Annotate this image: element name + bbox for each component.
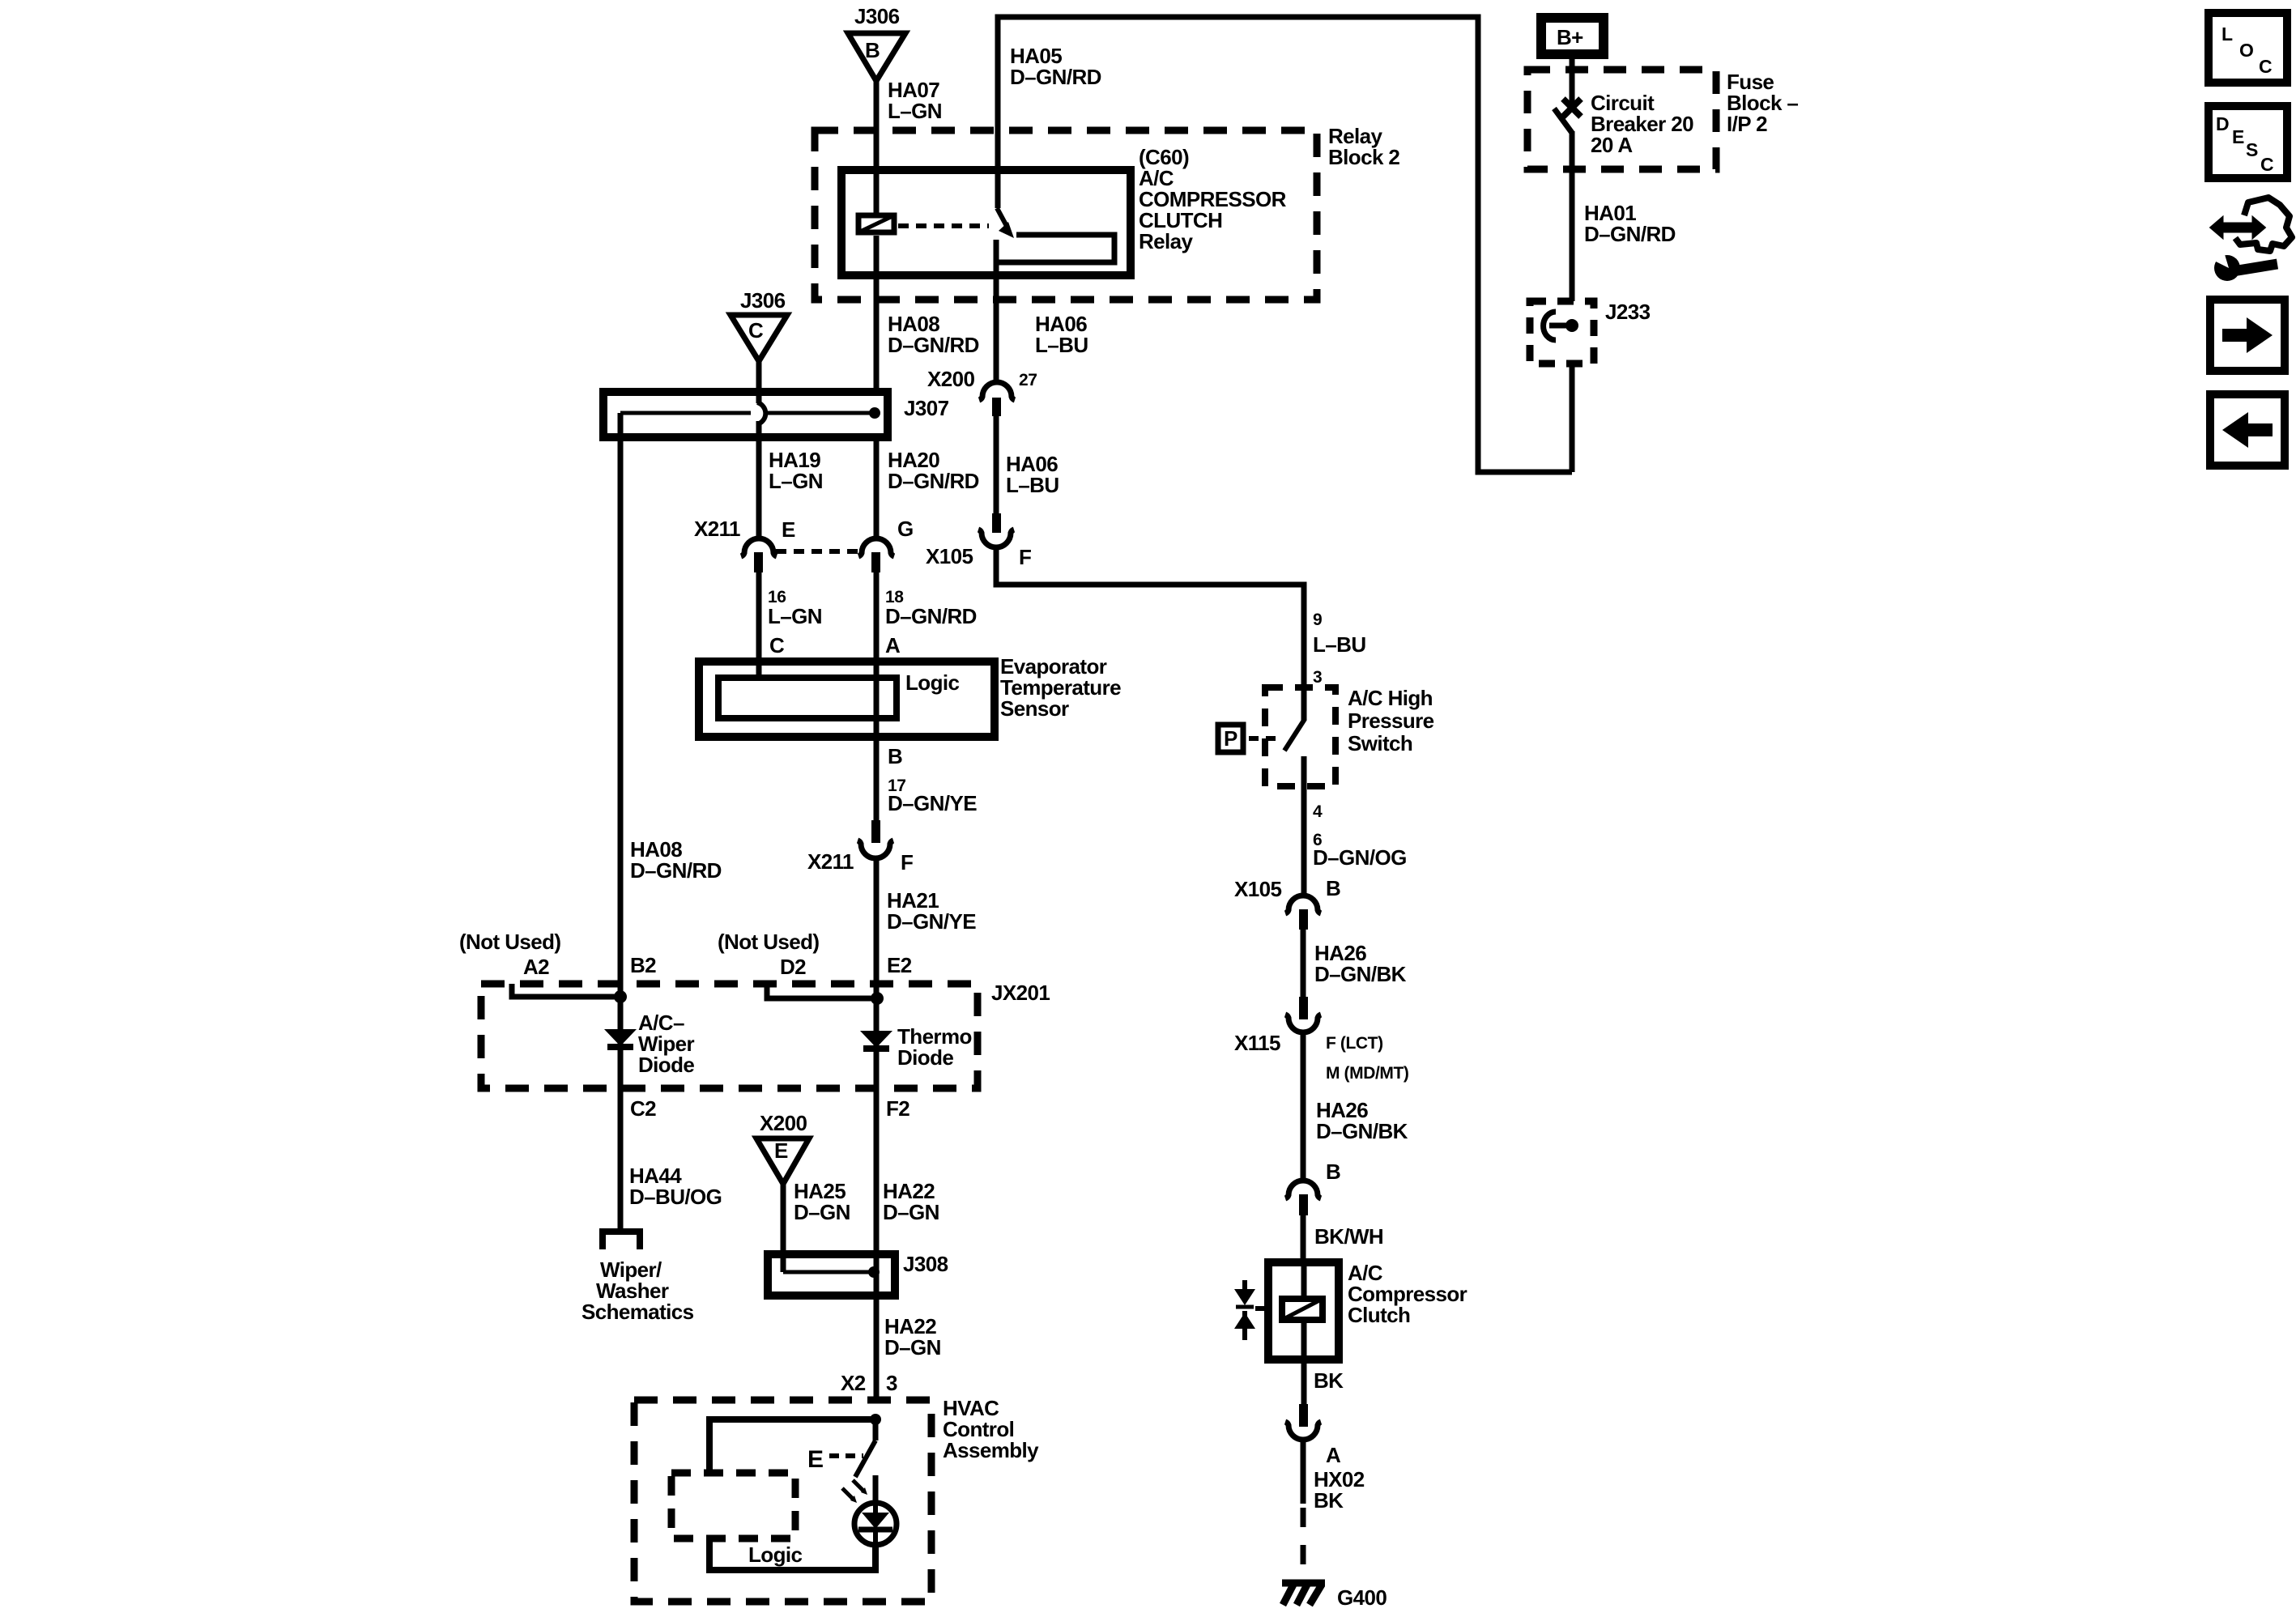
svg-text:X200: X200	[760, 1111, 807, 1135]
wire HA08 left branch down from J307	[618, 413, 624, 997]
A/C high pressure switch dashed box	[1265, 687, 1335, 786]
svg-text:O: O	[2239, 40, 2254, 61]
svg-text:F2: F2	[886, 1096, 909, 1121]
wire HA22 F2 to J308	[874, 1088, 880, 1400]
svg-text:A: A	[885, 633, 901, 657]
circuit breaker CB20	[1554, 91, 1693, 169]
svg-text:D–GN/RD: D–GN/RD	[888, 469, 979, 493]
node B+	[1541, 18, 1604, 54]
svg-text:4: 4	[1313, 802, 1323, 821]
wire sensor B out	[874, 678, 880, 820]
svg-text:BK: BK	[1314, 1488, 1344, 1513]
svg-text:C: C	[2260, 154, 2274, 175]
svg-text:D–GN/RD: D–GN/RD	[1010, 65, 1101, 89]
svg-text:G: G	[897, 517, 914, 541]
splice J233	[1530, 300, 1651, 364]
ground G400	[1282, 1583, 1387, 1610]
svg-text:D–BU/OG: D–BU/OG	[629, 1185, 722, 1209]
node B2 junction	[614, 990, 627, 1003]
wire HA25 E triangle to J308	[781, 1184, 786, 1272]
dashed wire to ground	[1301, 1508, 1306, 1580]
wire HA20 J307 to X211 G	[874, 437, 880, 538]
svg-text:Logic: Logic	[905, 670, 959, 695]
svg-text:(Not Used): (Not Used)	[718, 930, 819, 954]
svg-text:D2: D2	[780, 955, 806, 979]
svg-text:X211: X211	[807, 849, 854, 874]
svg-text:D–GN: D–GN	[794, 1200, 850, 1224]
node E2 junction	[871, 992, 884, 1005]
svg-text:JX201: JX201	[991, 981, 1050, 1005]
relay coil	[858, 170, 894, 275]
icon LOC box	[2209, 13, 2287, 83]
wire J233 down to corner	[1570, 364, 1575, 472]
svg-text:Pressure: Pressure	[1348, 709, 1434, 733]
pressure switch blade	[1284, 687, 1305, 786]
icon wrench/connector	[2209, 198, 2292, 281]
svg-text:X200: X200	[927, 367, 974, 391]
svg-text:A2: A2	[523, 955, 549, 979]
relay block 2 dashed box	[815, 130, 1317, 300]
suppressor diode compressor	[1234, 1280, 1255, 1340]
svg-text:F: F	[901, 850, 913, 874]
relay coil-switch dashed link	[898, 223, 989, 228]
svg-text:D–GN: D–GN	[884, 1335, 941, 1360]
svg-text:X105: X105	[1234, 877, 1281, 901]
svg-text:Switch: Switch	[1348, 731, 1412, 755]
fuse block dashed box	[1527, 70, 1716, 169]
JX201 dashed box	[481, 984, 978, 1088]
svg-text:S: S	[2246, 139, 2258, 160]
svg-text:C: C	[769, 633, 785, 657]
evaporator temperature sensor box	[699, 654, 1121, 737]
svg-text:3: 3	[886, 1371, 897, 1395]
wire HA06 relay to X200	[994, 275, 999, 383]
svg-text:20 A: 20 A	[1591, 133, 1633, 157]
svg-text:D–GN/YE: D–GN/YE	[888, 791, 977, 815]
svg-text:D–GN/BK: D–GN/BK	[1316, 1119, 1408, 1143]
A2 stub	[512, 984, 620, 997]
icon arrow right box	[2210, 300, 2285, 371]
svg-text:Diode: Diode	[897, 1045, 953, 1070]
wire BK below compressor	[1301, 1360, 1307, 1404]
wire J306 C to J307	[756, 361, 762, 403]
svg-text:X105: X105	[926, 544, 973, 568]
svg-text:M (MD/MT): M (MD/MT)	[1326, 1064, 1409, 1083]
HVAC internal wiring	[709, 1414, 881, 1503]
svg-text:9: 9	[1313, 611, 1322, 629]
svg-text:X211: X211	[694, 517, 740, 541]
svg-text:F: F	[1019, 545, 1031, 569]
svg-text:Sensor: Sensor	[1000, 696, 1069, 721]
wire B+ to fuse block	[1570, 54, 1575, 104]
off-page bracket wiper/washer	[603, 1232, 640, 1249]
svg-text:C: C	[748, 318, 764, 343]
svg-text:I/P 2: I/P 2	[1727, 112, 1767, 136]
splice J308	[768, 1252, 948, 1296]
D2 stub	[767, 984, 877, 998]
connector X105 pin F	[926, 513, 1031, 569]
svg-text:Block 2: Block 2	[1328, 145, 1399, 169]
connector X211 pin E	[694, 517, 795, 572]
svg-text:27: 27	[1019, 371, 1037, 389]
svg-text:C: C	[2259, 56, 2273, 77]
svg-text:B: B	[1326, 1160, 1340, 1184]
svg-text:Relay: Relay	[1139, 229, 1194, 253]
wire HA19 J307 to X211 E	[756, 421, 762, 538]
splice J307	[603, 392, 949, 437]
svg-text:L–GN: L–GN	[769, 469, 823, 493]
wire 16 L-GN to sensor C	[756, 572, 762, 662]
wire BK/WH	[1301, 1215, 1306, 1262]
relay text C60	[1139, 145, 1287, 253]
connector X115	[1234, 997, 1409, 1083]
svg-text:J308: J308	[903, 1252, 948, 1276]
svg-text:D–GN/BK: D–GN/BK	[1314, 962, 1407, 986]
svg-text:J306: J306	[854, 4, 900, 28]
svg-text:Assembly: Assembly	[943, 1438, 1039, 1462]
svg-text:BK/WH: BK/WH	[1314, 1224, 1383, 1249]
wire HA07 from J306 B to relay	[874, 81, 880, 170]
svg-text:A: A	[1326, 1443, 1341, 1467]
connector pin B compressor	[1285, 1160, 1340, 1215]
svg-text:F (LCT): F (LCT)	[1326, 1034, 1383, 1053]
svg-text:E: E	[782, 517, 795, 542]
wire HX02 BK	[1301, 1441, 1306, 1504]
svg-text:B: B	[1326, 876, 1340, 900]
svg-text:A/C High: A/C High	[1348, 686, 1433, 710]
wire HA06 to X105 F	[994, 416, 999, 515]
relay C60 box	[841, 170, 1131, 275]
svg-text:D–GN/RD: D–GN/RD	[888, 333, 979, 357]
svg-text:D: D	[2216, 113, 2230, 134]
svg-text:3: 3	[1313, 668, 1322, 687]
svg-text:L–BU: L–BU	[1313, 632, 1366, 657]
node P box	[1218, 725, 1281, 752]
svg-text:L–GN: L–GN	[768, 604, 822, 628]
wire HA21 to JX201 E2	[874, 857, 880, 998]
svg-text:L: L	[2221, 23, 2233, 45]
svg-text:D–GN/RD: D–GN/RD	[885, 604, 977, 628]
connector J306 C triangle	[731, 288, 787, 361]
wire top feed from B+ loop to relay HA05	[998, 17, 1572, 472]
connector X211 pin G	[858, 517, 914, 572]
svg-text:J307: J307	[904, 396, 949, 420]
svg-text:Schematics: Schematics	[581, 1300, 694, 1324]
svg-text:B: B	[865, 38, 880, 62]
svg-text:E: E	[774, 1138, 788, 1163]
svg-text:G400: G400	[1337, 1585, 1387, 1610]
icon arrow left box	[2210, 394, 2285, 466]
wire HA26 to X115	[1301, 930, 1306, 997]
connector X200 E triangle	[756, 1111, 809, 1184]
wire HA08 relay to J307	[874, 275, 880, 392]
svg-text:J233: J233	[1605, 300, 1651, 324]
connector J306 B triangle	[848, 4, 905, 81]
svg-text:B2: B2	[630, 953, 656, 977]
A/C compressor clutch box	[1255, 1261, 1467, 1360]
dashed link X211 E-G	[776, 549, 858, 554]
HVAC logic box	[671, 1473, 875, 1570]
svg-text:E: E	[2232, 126, 2244, 147]
svg-text:L–GN: L–GN	[888, 99, 942, 123]
diode thermo	[860, 998, 972, 1088]
svg-text:P: P	[1224, 726, 1237, 751]
wire HA44 to wiper/washer	[618, 1088, 624, 1228]
diode A/C wiper	[604, 997, 694, 1088]
svg-text:BK: BK	[1314, 1368, 1344, 1393]
svg-text:E: E	[807, 1446, 823, 1473]
connector X105 pin B	[1234, 876, 1340, 930]
HVAC control assembly dashed box	[634, 1400, 931, 1602]
svg-text:D–GN/YE: D–GN/YE	[887, 909, 976, 934]
connector X200 pin 27	[927, 367, 1037, 416]
wire 4 / 6 D-GN/OG	[1301, 786, 1307, 896]
svg-text:(Not Used): (Not Used)	[459, 930, 560, 954]
svg-text:X115: X115	[1234, 1031, 1280, 1055]
wire X105 F to pressure switch branch	[996, 547, 1304, 687]
svg-text:Clutch: Clutch	[1348, 1303, 1410, 1327]
wire HA01	[1570, 169, 1575, 301]
svg-text:D–GN/RD: D–GN/RD	[630, 858, 722, 883]
svg-text:L–BU: L–BU	[1006, 473, 1059, 497]
connector X211 pin F	[807, 820, 913, 874]
svg-text:Logic: Logic	[748, 1543, 802, 1567]
svg-text:X2: X2	[841, 1371, 866, 1395]
connector pin A	[1285, 1404, 1341, 1467]
svg-text:B: B	[888, 744, 902, 768]
LED indicator	[842, 1480, 897, 1545]
icon DESC box	[2209, 106, 2287, 178]
relay switch	[996, 170, 1114, 275]
svg-text:J306: J306	[740, 288, 786, 313]
svg-text:C2: C2	[630, 1096, 656, 1121]
svg-text:B+: B+	[1557, 25, 1583, 49]
svg-text:D–GN/OG: D–GN/OG	[1313, 845, 1407, 870]
wire HA26 to B	[1301, 1034, 1306, 1181]
svg-text:Diode: Diode	[638, 1053, 694, 1077]
svg-text:E2: E2	[887, 953, 912, 977]
svg-text:D–GN: D–GN	[883, 1200, 939, 1224]
svg-text:L–BU: L–BU	[1035, 333, 1088, 357]
svg-text:D–GN/RD: D–GN/RD	[1584, 222, 1676, 246]
wire 18 D-GN/RD to sensor A	[874, 572, 880, 678]
